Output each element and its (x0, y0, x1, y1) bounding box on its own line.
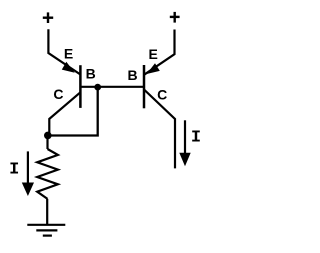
svg-text:E: E (149, 46, 158, 62)
wire: base rail between Q1 and Q2 (80, 86, 144, 88)
current arrow I (left) (27, 151, 29, 184)
transistor Q2 base bar (143, 65, 146, 108)
current arrow I (right) (184, 120, 186, 154)
emitter arrow Q2 (PNP, points into base bar) (147, 63, 160, 74)
resistor (zigzag) (37, 149, 58, 199)
ground (27, 225, 65, 236)
node: base junction dot (94, 84, 101, 91)
wire: Q2 collector diagonal down-right, output (144, 90, 175, 169)
wire: diode connection loop (collector node to base) (48, 87, 98, 136)
svg-text:C: C (53, 86, 63, 102)
V+ terminal right (170, 12, 180, 23)
svg-text:B: B (128, 67, 138, 83)
svg-text:E: E (64, 46, 73, 62)
wire: right emitter from V+ (144, 30, 175, 75)
wire: Q1 collector diagonal down-left (49, 92, 80, 134)
emitter arrow Q1 (PNP, points into base bar) (62, 62, 75, 73)
svg-text:B: B (86, 66, 96, 82)
svg-text:I: I (9, 160, 19, 179)
svg-text:I: I (191, 129, 201, 148)
svg-text:C: C (157, 86, 167, 102)
wire: left emitter from V+ (48, 29, 80, 74)
transistor Q1 base bar (79, 65, 82, 108)
wire: node to resistor (46, 136, 48, 150)
node: collector junction dot (44, 132, 52, 140)
V+ terminal left (43, 12, 53, 23)
wire: resistor to ground (46, 199, 48, 224)
